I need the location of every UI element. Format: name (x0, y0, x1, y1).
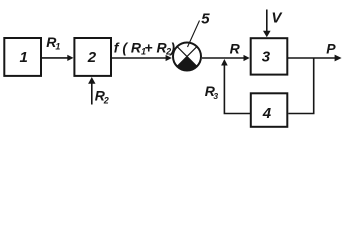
wire f(R1+R2) (block 2 to summing junction) (112, 57, 167, 59)
svg-text:2: 2 (87, 49, 97, 66)
feedback wire right (output tap down to block 4) (288, 58, 313, 114)
svg-text:1: 1 (20, 49, 28, 66)
wire R (summing junction to block 3) (202, 57, 245, 59)
block 3 (251, 38, 288, 74)
block 4 (251, 93, 287, 127)
leader line to label 5 (188, 21, 200, 48)
block 1 (4, 38, 41, 76)
wire R1 (block 1 to block 2) (41, 57, 69, 59)
svg-text:3: 3 (262, 49, 271, 66)
svg-text:2: 2 (103, 95, 109, 105)
svg-text:4: 4 (262, 105, 272, 122)
svg-text:V: V (271, 9, 283, 26)
feedback junction arrow (upward into wire R) (221, 59, 228, 66)
block 2 (74, 38, 111, 76)
feedback wire left (block 4 to junction) (224, 64, 250, 114)
svg-text:1: 1 (55, 41, 60, 51)
summing junction (mixer) circle (173, 43, 201, 71)
svg-text:P: P (326, 40, 336, 56)
wire R2 (input into block 2 bottom) (91, 84, 93, 105)
mixer filled bottom quadrant (177, 57, 197, 71)
mixer X diagonals (177, 47, 197, 67)
svg-text:f ( R1+ R2): f ( R1+ R2) (114, 39, 176, 56)
svg-text:R: R (230, 40, 241, 56)
wire V (input into block 3 top) (266, 10, 268, 32)
svg-text:5: 5 (201, 10, 210, 27)
svg-text:3: 3 (213, 91, 218, 101)
wire P (block 3 output) (287, 57, 335, 59)
